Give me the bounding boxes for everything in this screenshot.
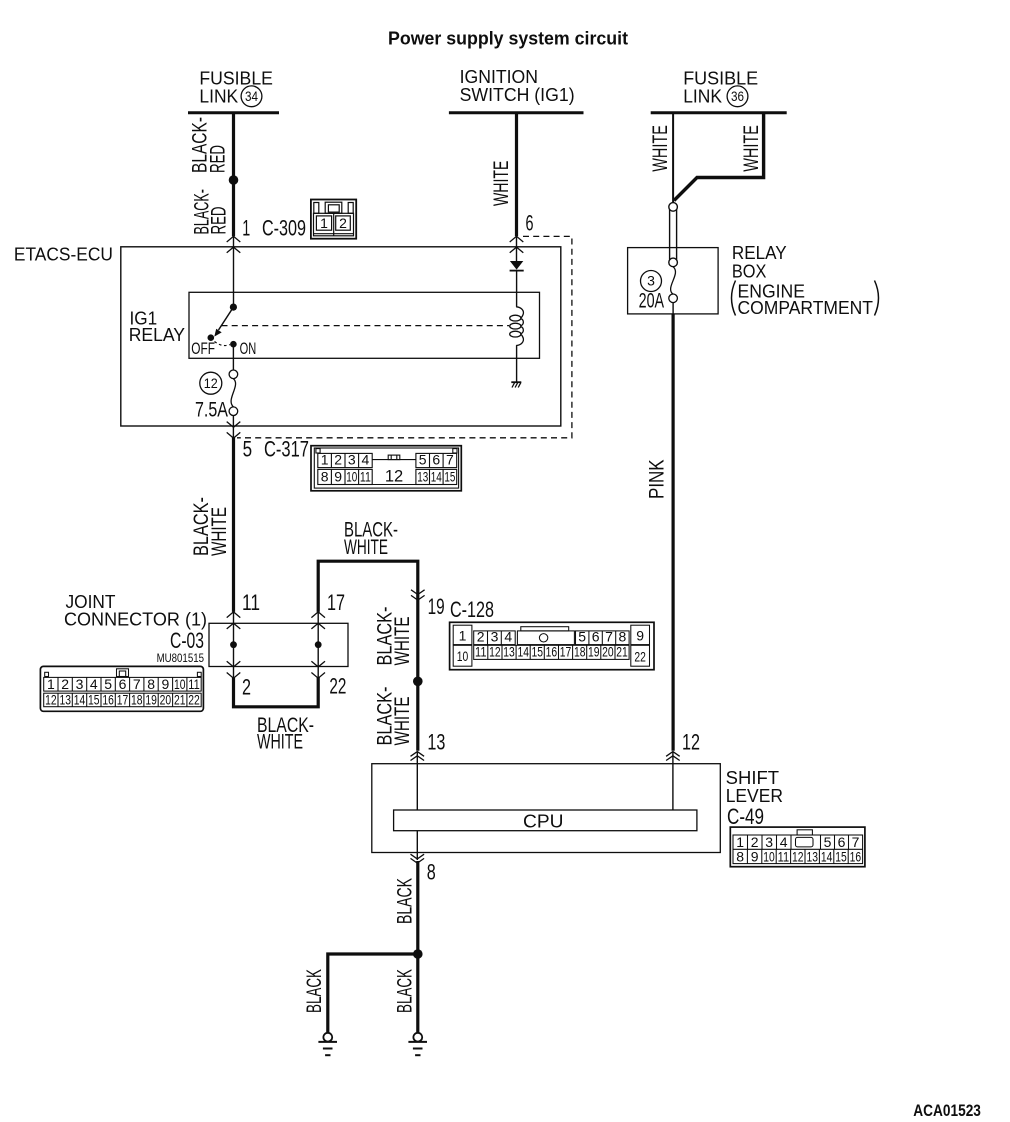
ignition switch label (460, 67, 575, 105)
relay switch arm with arrow (219, 307, 234, 330)
svg-text:LINK: LINK (199, 86, 238, 106)
fusible link element (capsule) (669, 203, 678, 267)
svg-text:10: 10 (763, 848, 775, 864)
svg-text:ON: ON (240, 340, 257, 358)
wire BLACK down to right ground (416, 954, 419, 1032)
connector C-49 graphic (730, 827, 865, 867)
svg-text:WHITE: WHITE (344, 535, 388, 559)
joint dot pin 17 (315, 641, 322, 648)
svg-text:6: 6 (592, 629, 600, 645)
junction dot on BLACK-RED wire (229, 175, 239, 185)
svg-text:21: 21 (616, 644, 628, 660)
svg-text:1: 1 (320, 215, 328, 231)
svg-text:3: 3 (348, 452, 356, 468)
svg-text:WHITE: WHITE (390, 617, 414, 666)
dashed actuation line to coil (222, 325, 510, 327)
svg-text:FUSIBLE: FUSIBLE (683, 68, 758, 88)
svg-text:16: 16 (850, 848, 862, 864)
svg-text:22: 22 (329, 674, 346, 699)
svg-text:13: 13 (59, 692, 71, 708)
svg-text:6: 6 (119, 676, 127, 692)
svg-text:2: 2 (242, 675, 251, 700)
relay common contact dot (230, 304, 237, 311)
wire through joint connector pin 17 to 22 (317, 612, 319, 679)
svg-text:LINK: LINK (683, 86, 722, 106)
svg-text:3: 3 (76, 676, 84, 692)
svg-text:WHITE: WHITE (390, 697, 414, 746)
svg-text:12: 12 (204, 375, 218, 391)
svg-text:RED: RED (206, 145, 230, 173)
svg-text:2: 2 (334, 452, 342, 468)
svg-text:21: 21 (174, 692, 186, 708)
svg-text:ETACS-ECU: ETACS-ECU (14, 245, 113, 265)
svg-text:12: 12 (45, 692, 57, 708)
svg-text:C-317: C-317 (264, 437, 309, 462)
wire BLACK-WHITE U loop pins 2-22 (234, 678, 319, 707)
svg-text:FUSIBLE: FUSIBLE (199, 68, 273, 88)
C-128 cell numbers (457, 628, 646, 665)
svg-text:17: 17 (117, 692, 129, 708)
connector C-128 graphic (450, 622, 654, 669)
svg-text:15: 15 (444, 469, 455, 485)
svg-text:13: 13 (417, 469, 428, 485)
svg-text:3: 3 (491, 629, 499, 645)
svg-text:10: 10 (174, 676, 186, 692)
svg-text:CPU: CPU (523, 812, 564, 832)
svg-text:BOX: BOX (732, 261, 767, 281)
svg-text:20: 20 (602, 644, 614, 660)
branch wire from pin 17 to pin 19 (horizontal) (318, 561, 418, 751)
svg-text:16: 16 (546, 644, 558, 660)
svg-text:12: 12 (792, 848, 804, 864)
joint dot pin 11 (230, 641, 237, 648)
label BLACK-WHITE (left) (189, 497, 231, 556)
svg-text:7: 7 (605, 629, 613, 645)
svg-text:1: 1 (459, 628, 467, 644)
wire BLACK-WHITE pin5 to joint connector pin 11 (232, 437, 235, 612)
svg-text:13: 13 (806, 848, 818, 864)
relay coil (510, 271, 524, 383)
C-03 cell numbers row 1 (47, 676, 200, 692)
svg-text:18: 18 (131, 692, 143, 708)
pin 1 chevrons (227, 236, 241, 253)
svg-text:WHITE: WHITE (648, 125, 672, 172)
svg-text:OFF: OFF (191, 340, 215, 358)
C-03 cell dividers (58, 677, 187, 706)
svg-text:11: 11 (778, 848, 790, 864)
svg-text:12: 12 (682, 730, 700, 755)
svg-text:5: 5 (104, 676, 112, 692)
wire pin 13 into CPU (416, 752, 418, 810)
CPU box (394, 810, 697, 831)
shift lever label (726, 768, 783, 829)
pin 8 chevrons (411, 854, 425, 863)
svg-text:15: 15 (835, 848, 847, 864)
svg-text:10: 10 (457, 648, 469, 664)
ground symbol right (408, 1033, 427, 1055)
svg-text:20: 20 (160, 692, 172, 708)
svg-text:CONNECTOR (1): CONNECTOR (1) (64, 610, 207, 630)
svg-text:11: 11 (360, 469, 371, 485)
wire into relay contact (233, 236, 235, 307)
svg-text:Power supply system circuit: Power supply system circuit (388, 28, 628, 48)
svg-text:18: 18 (574, 644, 586, 660)
label BLACK-WHITE (pin 19 vertical) (373, 607, 415, 666)
svg-text:C-49: C-49 (727, 804, 764, 829)
svg-text:6: 6 (526, 211, 534, 236)
pin 19 chevrons (411, 590, 425, 600)
svg-text:15: 15 (88, 692, 100, 708)
svg-text:BLACK: BLACK (302, 969, 326, 1013)
wire pin 8 out of CPU (416, 831, 418, 860)
svg-text:RELAY: RELAY (732, 243, 787, 263)
svg-text:12: 12 (489, 644, 501, 660)
svg-text:2: 2 (477, 629, 485, 645)
svg-text:10: 10 (346, 469, 357, 485)
dashed arc OFF to ON (215, 342, 230, 346)
wire WHITE from ignition switch (515, 114, 518, 236)
svg-text:6: 6 (432, 452, 440, 468)
splice junction dot (413, 677, 423, 687)
svg-text:SWITCH (IG1): SWITCH (IG1) (460, 85, 575, 105)
connector C-03 graphic (40, 666, 203, 711)
svg-text:C-128: C-128 (450, 597, 494, 622)
svg-text:1: 1 (47, 676, 55, 692)
svg-text:MU801515: MU801515 (157, 651, 205, 665)
pin 17 chevrons (311, 612, 325, 629)
svg-text:34: 34 (245, 88, 258, 104)
svg-text:BLACK: BLACK (393, 878, 417, 924)
fuse 3 circled number (641, 271, 662, 292)
joint connector label (64, 592, 207, 665)
svg-text:11: 11 (188, 676, 200, 692)
relay fuse 12 wire (232, 344, 234, 370)
svg-text:4: 4 (362, 452, 370, 468)
svg-text:COMPARTMENT: COMPARTMENT (738, 298, 874, 318)
connector C-309 graphic (311, 200, 356, 239)
connector C-317 graphic (311, 446, 461, 491)
svg-text:WHITE: WHITE (257, 730, 303, 754)
svg-text:7.5A: 7.5A (195, 399, 228, 422)
wire through joint connector pin 11 to 2 (233, 612, 235, 679)
svg-text:14: 14 (74, 692, 86, 708)
label BLACK-RED (lower) (190, 189, 231, 235)
svg-text:5: 5 (419, 452, 427, 468)
svg-text:22: 22 (188, 692, 200, 708)
svg-text:2: 2 (339, 215, 347, 231)
fuse element (circle-S-circle) (669, 267, 678, 303)
svg-text:PINK: PINK (645, 459, 669, 499)
svg-text:20A: 20A (639, 290, 665, 313)
wire BLACK from pin 8 (416, 861, 419, 954)
IG1 RELAY label (129, 309, 185, 346)
svg-text:4: 4 (504, 629, 512, 645)
svg-text:LEVER: LEVER (726, 786, 783, 806)
svg-text:11: 11 (242, 590, 260, 615)
pin 22 chevrons (311, 661, 325, 678)
relay OFF contact dot (208, 334, 215, 341)
fusible link 36 label (683, 68, 758, 106)
label BLACK-WHITE (horizontal, above branch wire) (344, 518, 398, 560)
svg-text:ACA01523: ACA01523 (913, 1101, 981, 1120)
svg-text:7: 7 (446, 452, 454, 468)
svg-text:19: 19 (588, 644, 600, 660)
relay box label (732, 243, 879, 318)
svg-text:13: 13 (427, 730, 445, 755)
svg-text:36: 36 (731, 88, 744, 104)
wire PINK from relay box to shift lever (672, 303, 674, 314)
relay ON contact dot (230, 341, 237, 348)
joint connector box (209, 623, 348, 666)
ETACS-ECU dashed connector boundary (237, 236, 572, 437)
wire to pin 5 (232, 416, 234, 439)
shift lever box (372, 764, 721, 853)
svg-text:8: 8 (427, 860, 436, 885)
C-317 cell numbers row 1 (321, 452, 454, 486)
svg-text:13: 13 (503, 644, 515, 660)
svg-text:9: 9 (751, 848, 759, 864)
pin 13 chevrons (411, 752, 425, 761)
svg-text:SHIFT: SHIFT (726, 768, 779, 788)
svg-text:8: 8 (321, 469, 329, 485)
svg-text:8: 8 (736, 848, 744, 864)
svg-text:12: 12 (385, 468, 403, 486)
pin 5 chevrons (227, 422, 241, 439)
wire BLACK-RED from fusible link 34 (232, 114, 235, 236)
fusible link 34 label (199, 68, 273, 106)
svg-text:22: 22 (634, 649, 646, 665)
svg-text:WHITE: WHITE (207, 507, 231, 556)
pin 6 chevrons (510, 236, 524, 253)
fuse element circled ends (229, 370, 238, 416)
circled 12 fuse number (200, 372, 222, 394)
label BLACK-WHITE (below junction vertical) (373, 687, 415, 746)
C-03 cell numbers row 2 (45, 692, 200, 708)
svg-text:RELAY: RELAY (129, 325, 185, 345)
ground junction dot (413, 949, 423, 959)
svg-text:1: 1 (242, 216, 250, 241)
svg-text:14: 14 (431, 469, 442, 485)
IG1 relay inner box (189, 292, 540, 358)
svg-text:2: 2 (61, 676, 69, 692)
svg-text:WHITE: WHITE (739, 125, 763, 172)
fusible link 36 terminal bar (651, 111, 787, 114)
pin 2 chevrons (227, 661, 241, 678)
pin 11 chevrons (227, 612, 241, 629)
svg-text:9: 9 (162, 676, 170, 692)
wire WHITE left branch (672, 114, 674, 203)
label BLACK-RED (upper) (188, 117, 230, 173)
wire BLACK branch to left ground (328, 954, 418, 1032)
C-49 cell numbers row 2 (736, 848, 861, 864)
pin 12 chevrons (666, 752, 680, 761)
svg-text:3: 3 (647, 273, 655, 289)
ignition switch terminal bar (449, 111, 584, 114)
svg-text:8: 8 (619, 629, 627, 645)
diode at pin 6 (510, 236, 524, 270)
label BLACK-WHITE (below U loop) (257, 713, 314, 754)
svg-text:C-309: C-309 (262, 216, 306, 241)
C-49 cell numbers row 1 (736, 834, 859, 850)
svg-text:19: 19 (428, 594, 445, 619)
svg-text:9: 9 (334, 469, 342, 485)
svg-text:5: 5 (578, 629, 586, 645)
C-317 cell numbers row 2 (321, 469, 456, 485)
svg-text:BLACK: BLACK (393, 969, 417, 1013)
svg-text:5: 5 (243, 437, 253, 462)
svg-text:17: 17 (560, 644, 572, 660)
svg-text:C-03: C-03 (170, 628, 204, 653)
svg-text:4: 4 (90, 676, 98, 692)
svg-text:19: 19 (145, 692, 157, 708)
svg-text:17: 17 (327, 590, 345, 615)
svg-text:7: 7 (133, 676, 141, 692)
fusible link 34 terminal bar (188, 111, 279, 114)
ground symbol left (318, 1033, 337, 1055)
svg-text:11: 11 (475, 644, 487, 660)
svg-text:14: 14 (517, 644, 529, 660)
svg-text:16: 16 (102, 692, 114, 708)
relay box rectangle (628, 248, 719, 314)
svg-text:8: 8 (147, 676, 155, 692)
svg-text:14: 14 (821, 848, 833, 864)
svg-text:9: 9 (636, 628, 644, 644)
svg-text:15: 15 (532, 644, 544, 660)
wire WHITE right branch (674, 114, 764, 201)
svg-text:RED: RED (207, 207, 231, 235)
svg-text:1: 1 (321, 452, 329, 468)
wire pin 12 into CPU (672, 752, 674, 810)
svg-text:WHITE: WHITE (489, 161, 513, 206)
coil ground (chassis) (511, 382, 521, 387)
ETACS-ECU box (121, 247, 561, 426)
